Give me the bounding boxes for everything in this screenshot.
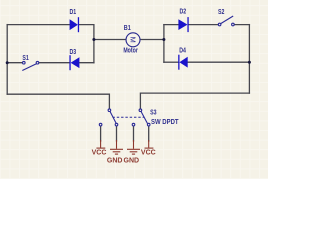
svg-text:S2: S2 <box>218 8 225 16</box>
svg-text:D2: D2 <box>179 8 186 16</box>
svg-text:VCC: VCC <box>141 149 156 156</box>
svg-text:VCC: VCC <box>92 149 107 156</box>
svg-text:S1: S1 <box>22 54 29 62</box>
svg-text:GND: GND <box>107 157 123 164</box>
svg-text:D3: D3 <box>69 49 76 57</box>
svg-text:D1: D1 <box>69 8 76 16</box>
svg-text:Motor: Motor <box>123 47 138 55</box>
svg-text:B1: B1 <box>124 24 131 32</box>
svg-text:S3: S3 <box>150 109 157 117</box>
svg-text:GND: GND <box>124 157 140 164</box>
svg-text:M: M <box>129 37 138 43</box>
svg-text:D4: D4 <box>179 47 186 55</box>
svg-text:SW DPDT: SW DPDT <box>151 118 179 126</box>
